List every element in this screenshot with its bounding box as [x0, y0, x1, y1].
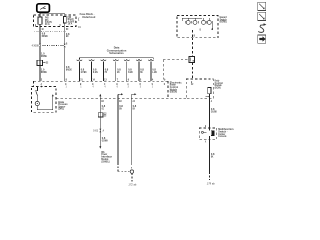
svg-text:Underhood: Underhood: [82, 16, 96, 19]
svg-text:BK: BK: [133, 106, 135, 110]
svg-text:OG/WH: OG/WH: [102, 139, 108, 143]
svg-text:B: B: [66, 42, 67, 46]
svg-text:GY/BK: GY/BK: [81, 70, 87, 74]
svg-text:PU: PU: [105, 70, 107, 74]
svg-text:S2: S2: [46, 60, 49, 64]
svg-text:RD/WH: RD/WH: [41, 70, 47, 74]
svg-text:E3: E3: [119, 99, 122, 103]
svg-text:D-BU: D-BU: [128, 70, 133, 74]
svg-text:BN/OG: BN/OG: [66, 67, 72, 71]
svg-text:A: A: [103, 128, 104, 132]
svg-text:B: B: [200, 27, 201, 31]
svg-text:B2: B2: [101, 99, 104, 103]
svg-text:RD/WH: RD/WH: [42, 34, 48, 38]
svg-text:Console: Console: [218, 134, 227, 138]
svg-text:10 A: 10 A: [68, 21, 73, 25]
svg-text:S: S: [164, 82, 165, 86]
svg-text:C1: C1: [78, 25, 81, 29]
svg-text:172 ab: 172 ab: [128, 182, 136, 186]
svg-text:8C: 8C: [66, 27, 68, 31]
svg-text:A: A: [211, 99, 212, 103]
svg-text:40 A: 40 A: [45, 22, 50, 26]
svg-text:(EBCM): (EBCM): [170, 90, 177, 94]
svg-text:B: B: [35, 23, 36, 27]
svg-text:(HZRD): (HZRD): [220, 20, 227, 24]
svg-text:179 ab: 179 ab: [207, 181, 215, 185]
svg-text:5 X1: 5 X1: [93, 128, 98, 132]
svg-text:WH: WH: [140, 70, 142, 74]
svg-text:D: D: [60, 23, 61, 27]
svg-text:A4: A4: [133, 99, 136, 103]
svg-text:4 X105: 4 X105: [32, 44, 39, 48]
svg-text:B: B: [205, 124, 206, 128]
svg-text:Schematics: Schematics: [109, 51, 124, 55]
svg-text:BN: BN: [119, 106, 121, 110]
svg-text:D-GN: D-GN: [93, 70, 98, 74]
svg-text:BN: BN: [66, 34, 68, 38]
svg-text:OG/BK: OG/BK: [211, 109, 217, 113]
svg-text:BK: BK: [211, 154, 213, 158]
svg-text:(BCM): (BCM): [215, 86, 221, 90]
svg-text:C2: C2: [191, 82, 194, 86]
svg-text:(DRL): (DRL): [58, 107, 64, 111]
svg-text:OG: OG: [102, 106, 104, 110]
svg-text:BN: BN: [117, 70, 119, 74]
svg-text:RD/WH: RD/WH: [41, 54, 47, 58]
svg-text:(CHMSL): (CHMSL): [101, 159, 109, 163]
svg-text:1C: 1C: [42, 27, 44, 31]
svg-text:A: A: [205, 139, 206, 143]
svg-text:OG: OG: [104, 114, 106, 118]
svg-text:L-BU: L-BU: [152, 70, 157, 74]
